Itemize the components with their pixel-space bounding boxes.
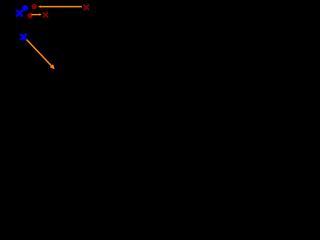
dark red pentagon marker (lower) — [27, 13, 33, 19]
dark red x marker (middle) — [43, 12, 48, 17]
orange arrow (short, left-to-right) — [31, 13, 42, 15]
blue x marker (top-left cluster) — [16, 10, 23, 17]
dark red x marker (right) — [84, 5, 89, 10]
scatter plot canvas — [0, 0, 125, 113]
dark red pentagon marker (top) — [31, 3, 37, 9]
orange arrow (right-to-left, horizontal) — [38, 5, 82, 8]
background — [0, 0, 125, 113]
blue x marker (middle cluster) — [20, 34, 26, 40]
orange arrow (diagonal, down-right) — [27, 40, 55, 70]
blue circle marker — [22, 5, 28, 11]
